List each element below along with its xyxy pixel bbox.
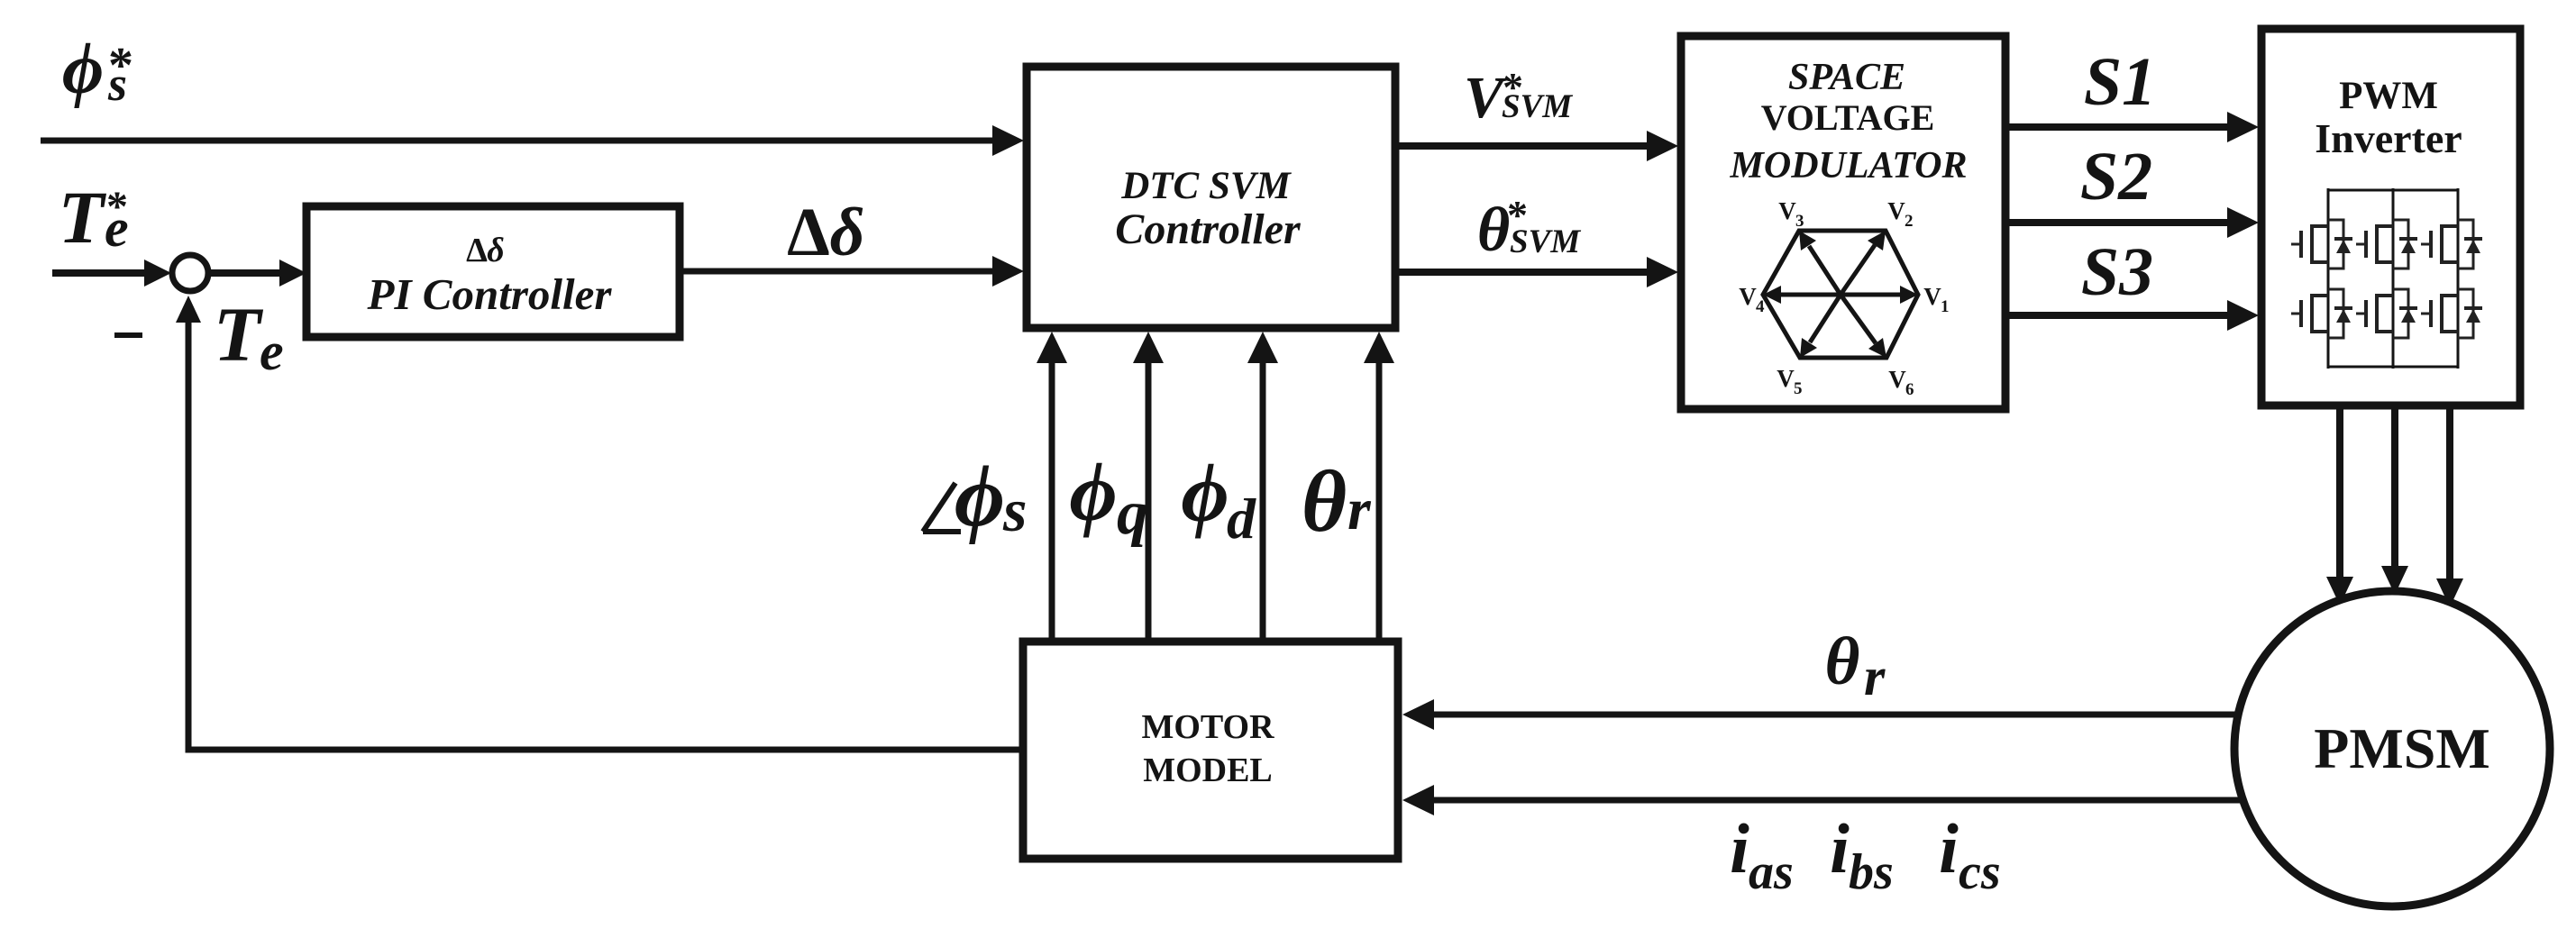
block Motor Model box (1023, 642, 1398, 859)
vector arrow V1 from hexagon center (1841, 286, 1918, 304)
svg-text:ϕ: ϕ (1069, 446, 1117, 538)
minus sign at summing junction (114, 332, 142, 338)
wire PI controller to DTC SVM controller (680, 269, 997, 275)
node T_e* reference torque label (59, 176, 129, 259)
node label V5 on hexagon (1777, 365, 1802, 398)
label Inverter (2315, 115, 2462, 161)
transistor Q1 with freewheel diode (2291, 220, 2352, 269)
wire S2 from modulator to PWM inverter (2005, 219, 2232, 226)
svg-text:q: q (1117, 478, 1148, 548)
label SPACE (1788, 57, 1905, 98)
inverter DC bus bottom rail (2328, 366, 2458, 369)
svg-text:i: i (1939, 809, 1959, 888)
arrowhead up into DTC controller 1 (1037, 332, 1067, 363)
label MOTOR (1141, 708, 1274, 746)
node label V1 on hexagon (1923, 283, 1949, 316)
svg-text:s: s (1002, 476, 1027, 544)
svg-text:d: d (1227, 487, 1256, 551)
svg-text:e: e (260, 322, 284, 381)
svg-text:as: as (1749, 844, 1794, 900)
svg-text:VOLTAGE: VOLTAGE (1761, 97, 1935, 138)
arrowhead S1 into PWM inverter (2227, 112, 2259, 142)
inverter phase leg C (2457, 188, 2460, 369)
space vector hexagon outline (1763, 231, 1918, 358)
vector arrow V2 from hexagon center (1841, 231, 1886, 295)
vector arrow V4 from hexagon center (1763, 286, 1841, 304)
label PI Controller (367, 269, 613, 319)
svg-text:S3: S3 (2081, 234, 2153, 310)
label VOLTAGE (1761, 97, 1935, 138)
arrowhead phase c into PMSM (2436, 578, 2463, 607)
arrowhead stator currents into motor model (1402, 785, 1434, 815)
wire T_e feedback from motor model to summing junction (188, 311, 1023, 750)
node angle phi_s label (923, 448, 1027, 544)
svg-text:s: s (107, 57, 127, 111)
node theta*_SVM label (1477, 192, 1581, 265)
svg-text:SVM: SVM (1502, 88, 1573, 125)
svg-text:i: i (1830, 809, 1850, 888)
arrowhead T_e up into summing junction (176, 296, 201, 323)
arrowhead phi_s* into DTC SVM controller (992, 125, 1024, 156)
node S1 gating signal label (2084, 44, 2156, 120)
svg-text:i: i (1730, 809, 1749, 888)
wire S3 from modulator to PWM inverter (2005, 312, 2232, 319)
svg-text:3: 3 (1795, 212, 1804, 231)
svg-text:Δ: Δ (787, 195, 830, 270)
node delta-delta label on wire (787, 195, 864, 270)
svg-text:SVM: SVM (1510, 223, 1581, 260)
vector arrow V5 from hexagon center (1800, 295, 1841, 358)
label MODULATOR (1730, 145, 1968, 187)
svg-text:θ: θ (1302, 453, 1347, 550)
wire theta*_SVM from DTC controller to space voltage modulator (1395, 269, 1651, 276)
svg-text:4: 4 (1756, 297, 1765, 316)
svg-text:MOTOR: MOTOR (1141, 708, 1274, 746)
label PWM (2339, 75, 2438, 117)
svg-text:δ: δ (830, 195, 865, 270)
svg-text:e: e (105, 198, 129, 258)
svg-text:DTC SVM: DTC SVM (1120, 165, 1292, 207)
svg-text:Controller: Controller (1115, 205, 1302, 253)
svg-text:r: r (1864, 647, 1886, 706)
arrowhead up into DTC controller 2 (1133, 332, 1164, 363)
node phi_s* reference flux label (62, 30, 133, 111)
PMSM motor circle (2234, 591, 2550, 906)
svg-text:Inverter: Inverter (2315, 115, 2462, 161)
node phi_q label (1069, 446, 1148, 548)
svg-text:2: 2 (1905, 212, 1914, 231)
wire inverter phase b output to PMSM (2391, 405, 2398, 569)
label delta-delta inside PI controller (466, 232, 505, 269)
node i_as i_bs i_cs stator current labels (1730, 809, 2000, 900)
svg-text:SPACE: SPACE (1788, 57, 1905, 98)
svg-text:ϕ: ϕ (955, 448, 1005, 544)
arrowhead theta*_SVM into modulator (1647, 257, 1678, 287)
transistor Q2 with freewheel diode (2356, 220, 2417, 269)
transistor Q3 with freewheel diode (2421, 220, 2482, 269)
inverter DC bus top rail (2328, 189, 2458, 192)
arrowhead theta_r into motor model (1402, 699, 1434, 730)
node label V4 on hexagon (1739, 283, 1765, 316)
svg-text:Δ: Δ (466, 232, 488, 269)
svg-text:V: V (1777, 365, 1795, 392)
node label V2 on hexagon (1887, 197, 1913, 231)
block DTC SVM Controller box (1027, 67, 1395, 328)
wire S1 from modulator to PWM inverter (2005, 123, 2232, 131)
inverter phase leg B (2392, 188, 2395, 369)
svg-text:1: 1 (1941, 297, 1950, 316)
arrowhead V*_SVM into modulator (1647, 131, 1678, 161)
transistor Q5 with freewheel diode (2356, 289, 2417, 338)
svg-text:6: 6 (1905, 380, 1914, 399)
wire theta_r feedback from PMSM to motor model (1428, 712, 2238, 718)
arrowhead S3 into PWM inverter (2227, 300, 2259, 331)
arrowhead T_e* into summing junction (144, 260, 171, 287)
svg-text:MODULATOR: MODULATOR (1730, 145, 1968, 187)
label PMSM (2314, 716, 2490, 780)
svg-text:V: V (1887, 197, 1905, 224)
node S2 gating signal label (2080, 139, 2152, 214)
vector arrow V6 from hexagon center (1841, 295, 1886, 358)
svg-text:bs: bs (1849, 844, 1894, 900)
vector arrow V3 from hexagon center (1799, 231, 1841, 295)
node label V6 on hexagon (1888, 366, 1914, 399)
svg-text:PWM: PWM (2339, 75, 2438, 117)
block PWM Inverter box (2261, 29, 2520, 405)
svg-text:T: T (59, 176, 107, 259)
arrowhead phase b into PMSM (2381, 566, 2408, 595)
node label V3 on hexagon (1778, 197, 1804, 231)
node V*_SVM label (1464, 64, 1573, 131)
wire T_e* input to summing junction (52, 269, 146, 277)
arrowhead up into DTC controller 4 (1364, 332, 1394, 363)
inverter phase leg A (2327, 188, 2330, 369)
svg-text:5: 5 (1794, 379, 1803, 398)
svg-text:θ: θ (1825, 624, 1860, 699)
transistor Q6 with freewheel diode (2421, 289, 2482, 338)
node theta_r rotor position label (1825, 624, 1886, 706)
arrowhead up into DTC controller 3 (1247, 332, 1278, 363)
node theta_r label (motor model output) (1302, 453, 1372, 550)
svg-text:V: V (1888, 366, 1906, 393)
arrowhead phase a into PMSM (2326, 577, 2353, 606)
svg-text:V: V (1778, 197, 1796, 224)
block PI controller box (306, 206, 680, 337)
svg-text:MODEL: MODEL (1143, 751, 1273, 789)
node phi_d label (1181, 447, 1256, 551)
svg-text:V: V (1923, 283, 1941, 310)
arrowhead into PI controller (279, 260, 306, 287)
wire phi_s* reference line to DTC SVM controller (41, 138, 997, 144)
arrowhead delta-delta into DTC SVM controller (992, 256, 1024, 287)
wire summing junction to PI controller (210, 269, 281, 277)
svg-text:PI Controller: PI Controller (367, 269, 613, 319)
svg-text:PMSM: PMSM (2314, 716, 2490, 780)
svg-text:T: T (214, 291, 264, 378)
wire inverter phase a output to PMSM (2336, 405, 2343, 580)
svg-text:θ: θ (1477, 196, 1510, 265)
svg-text:r: r (1347, 477, 1372, 542)
transistor Q4 with freewheel diode (2291, 289, 2352, 338)
block Space Voltage Modulator box (1681, 36, 2005, 409)
wire stator currents feedback from PMSM to motor model (1428, 797, 2245, 804)
wire motor model output 4 up to DTC controller (1376, 356, 1383, 642)
svg-text:S2: S2 (2080, 139, 2152, 214)
svg-text:δ: δ (487, 232, 504, 269)
summing junction (172, 255, 208, 291)
label MODEL (1143, 751, 1273, 789)
wire V*_SVM from DTC controller to space voltage modulator (1395, 142, 1651, 150)
svg-text:ϕ: ϕ (1181, 447, 1229, 539)
wire motor model output 2 up to DTC controller (1146, 356, 1152, 642)
arrowhead S2 into PWM inverter (2227, 207, 2259, 238)
wire inverter phase c output to PMSM (2446, 405, 2453, 582)
wire motor model output 3 up to DTC controller (1260, 356, 1266, 642)
svg-text:ϕ: ϕ (62, 30, 104, 109)
svg-text:V: V (1739, 283, 1757, 310)
svg-text:cs: cs (1959, 844, 2001, 900)
node T_e feedback label (214, 291, 284, 381)
svg-text:S1: S1 (2084, 44, 2156, 120)
wire motor model output 1 up to DTC controller (1049, 356, 1055, 642)
label Controller (1115, 205, 1302, 253)
node S3 gating signal label (2081, 234, 2153, 310)
label DTC SVM (1120, 165, 1292, 207)
